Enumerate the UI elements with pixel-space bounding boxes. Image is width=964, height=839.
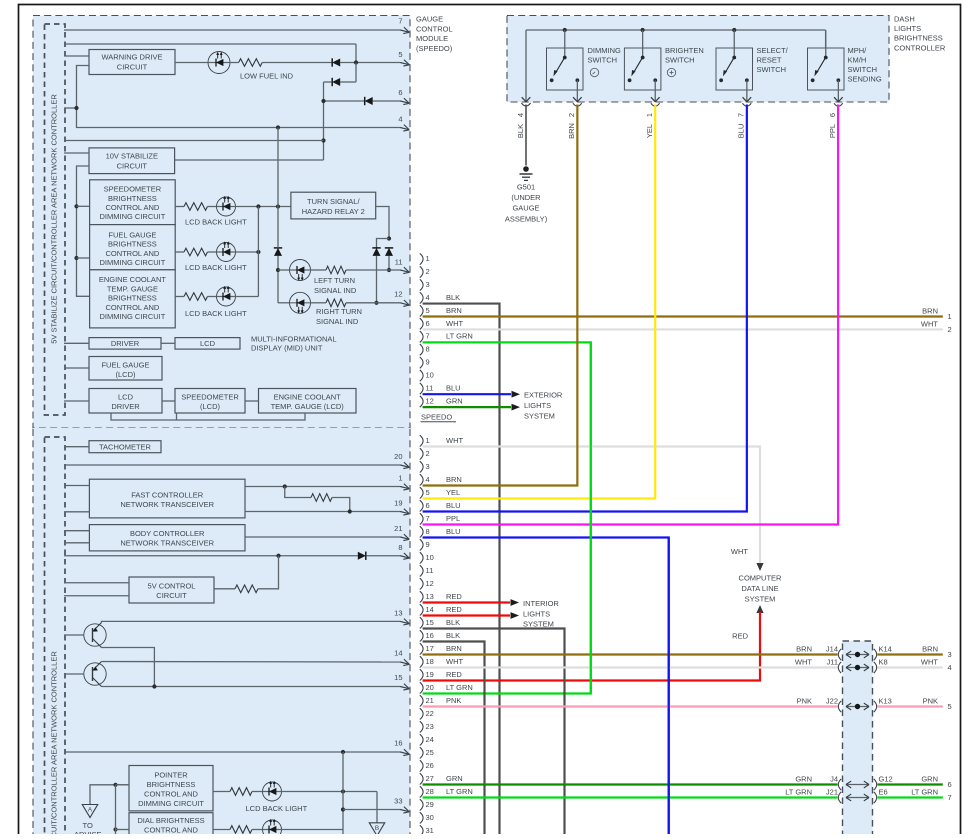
svg-text:BRN: BRN [446, 644, 462, 653]
svg-text:MULTI-INFORMATIONAL: MULTI-INFORMATIONAL [251, 335, 337, 344]
svg-text:5: 5 [398, 50, 402, 59]
svg-text:DIMMING: DIMMING [588, 46, 621, 55]
svg-text:WHT: WHT [446, 319, 463, 328]
svg-text:17: 17 [426, 644, 434, 653]
svg-text:15: 15 [426, 618, 434, 627]
svg-text:1: 1 [426, 254, 430, 263]
svg-text:5: 5 [426, 306, 430, 315]
svg-text:12: 12 [426, 396, 434, 405]
svg-text:DATA LINE: DATA LINE [741, 584, 778, 593]
svg-text:BLU: BLU [737, 124, 746, 139]
svg-text:EXTERIOR: EXTERIOR [524, 391, 563, 400]
svg-text:7: 7 [948, 793, 952, 802]
svg-text:7: 7 [426, 332, 430, 341]
svg-text:NETWORK TRANSCEIVER: NETWORK TRANSCEIVER [120, 539, 214, 548]
svg-text:11: 11 [426, 566, 434, 575]
svg-text:G501: G501 [517, 183, 535, 192]
svg-text:6: 6 [828, 113, 837, 117]
svg-text:BRIGHTNESS: BRIGHTNESS [147, 780, 196, 789]
svg-text:LCD BACK LIGHT: LCD BACK LIGHT [185, 217, 247, 226]
svg-text:19: 19 [426, 670, 434, 679]
svg-text:4: 4 [516, 113, 525, 117]
svg-text:ASSEMBLY): ASSEMBLY) [505, 214, 548, 223]
svg-text:RED: RED [446, 670, 462, 679]
svg-text:14: 14 [394, 648, 402, 657]
svg-text:SIGNAL IND: SIGNAL IND [314, 286, 357, 295]
svg-text:WHT: WHT [795, 657, 812, 666]
svg-text:SWITCH: SWITCH [588, 55, 618, 64]
svg-text:GRN: GRN [795, 774, 812, 783]
svg-text:10: 10 [426, 553, 434, 562]
svg-text:MPH/: MPH/ [848, 46, 868, 55]
svg-text:5: 5 [948, 702, 952, 711]
svg-text:11: 11 [426, 384, 434, 393]
svg-text:15: 15 [394, 673, 402, 682]
svg-text:7: 7 [398, 17, 402, 26]
svg-text:J4: J4 [830, 774, 838, 783]
svg-text:SWITCH: SWITCH [665, 55, 695, 64]
svg-text:TEMP. GAUGE (LCD): TEMP. GAUGE (LCD) [271, 402, 345, 411]
svg-text:14: 14 [426, 605, 434, 614]
svg-text:(LCD): (LCD) [200, 402, 221, 411]
svg-text:LIGHTS: LIGHTS [523, 609, 550, 618]
svg-text:20: 20 [426, 683, 434, 692]
svg-text:SWITCH: SWITCH [757, 65, 787, 74]
svg-text:BRIGHTNESS: BRIGHTNESS [894, 34, 943, 43]
svg-text:WHT: WHT [446, 436, 463, 445]
svg-text:21: 21 [394, 524, 402, 533]
svg-text:5V STABILIZE CIRCUIT/CONTROLLE: 5V STABILIZE CIRCUIT/CONTROLLER AREA NET… [50, 651, 59, 834]
svg-text:FAST CONTROLLER: FAST CONTROLLER [131, 491, 204, 500]
svg-text:BRIGHTNESS: BRIGHTNESS [108, 240, 157, 249]
svg-text:CONTROL AND: CONTROL AND [105, 249, 159, 258]
svg-text:PNK: PNK [446, 696, 461, 705]
svg-text:28: 28 [426, 787, 434, 796]
svg-text:CONTROLLER: CONTROLLER [894, 43, 946, 52]
svg-text:WHT: WHT [921, 657, 938, 666]
svg-text:11: 11 [395, 257, 403, 266]
svg-text:2: 2 [948, 325, 952, 334]
svg-text:2: 2 [426, 267, 430, 276]
svg-text:9: 9 [426, 540, 430, 549]
svg-text:BLK: BLK [446, 618, 460, 627]
svg-text:WHT: WHT [731, 547, 748, 556]
svg-text:6: 6 [398, 88, 402, 97]
svg-text:GRN: GRN [446, 774, 463, 783]
svg-text:CIRCUIT: CIRCUIT [117, 63, 148, 72]
svg-text:21: 21 [426, 696, 434, 705]
svg-text:1: 1 [645, 113, 654, 117]
svg-text:20: 20 [394, 452, 402, 461]
svg-text:DIAL BRIGHTNESS: DIAL BRIGHTNESS [137, 816, 204, 825]
svg-text:BLK: BLK [516, 124, 525, 138]
svg-text:TO: TO [83, 821, 93, 830]
svg-text:MODULE: MODULE [416, 34, 448, 43]
svg-text:SELECT/: SELECT/ [757, 46, 789, 55]
svg-text:WHT: WHT [446, 657, 463, 666]
svg-text:RED: RED [446, 592, 462, 601]
svg-text:5: 5 [426, 488, 430, 497]
svg-text:J11: J11 [826, 657, 838, 666]
svg-text:4: 4 [426, 475, 430, 484]
svg-text:4: 4 [426, 293, 430, 302]
svg-text:YEL: YEL [645, 124, 654, 138]
svg-text:8: 8 [398, 543, 402, 552]
svg-text:GRN: GRN [921, 774, 938, 783]
svg-text:BLU: BLU [446, 501, 461, 510]
svg-text:DRIVER: DRIVER [111, 402, 140, 411]
svg-text:DIMMING CIRCUIT: DIMMING CIRCUIT [99, 312, 165, 321]
svg-text:K8: K8 [879, 657, 888, 666]
svg-text:1: 1 [426, 436, 430, 445]
svg-text:CIRCUIT: CIRCUIT [117, 161, 148, 170]
svg-text:DISPLAY (MID) UNIT: DISPLAY (MID) UNIT [251, 344, 323, 353]
svg-text:4: 4 [948, 663, 952, 672]
svg-text:NETWORK TRANSCEIVER: NETWORK TRANSCEIVER [120, 500, 214, 509]
svg-text:1: 1 [398, 474, 402, 483]
svg-text:30: 30 [426, 813, 434, 822]
svg-text:RED: RED [732, 632, 748, 641]
svg-text:5V CONTROL: 5V CONTROL [148, 581, 196, 590]
svg-text:29: 29 [426, 800, 434, 809]
svg-text:GRN: GRN [446, 396, 463, 405]
svg-text:J21: J21 [826, 787, 838, 796]
svg-text:3: 3 [426, 462, 430, 471]
svg-text:22: 22 [426, 709, 434, 718]
svg-text:TACHOMETER: TACHOMETER [99, 443, 152, 452]
svg-text:24: 24 [426, 735, 434, 744]
svg-text:33: 33 [394, 797, 402, 806]
svg-text:LT GRN: LT GRN [911, 787, 938, 796]
svg-text:CONTROL: CONTROL [416, 24, 453, 33]
svg-text:1: 1 [948, 312, 952, 321]
svg-text:LCD: LCD [118, 393, 134, 402]
svg-text:BLK: BLK [446, 293, 460, 302]
svg-text:WARNING DRIVE: WARNING DRIVE [102, 53, 163, 62]
svg-text:RED: RED [446, 605, 462, 614]
svg-text:PNK: PNK [923, 696, 938, 705]
svg-text:BLU: BLU [446, 527, 461, 536]
svg-text:HAZARD RELAY 2: HAZARD RELAY 2 [302, 207, 365, 216]
svg-text:13: 13 [426, 592, 434, 601]
svg-text:5V STABILIZE CIRCUIT/CONTROLLE: 5V STABILIZE CIRCUIT/CONTROLLER AREA NET… [50, 94, 59, 344]
svg-text:SPEEDOMETER: SPEEDOMETER [181, 393, 239, 402]
svg-text:7: 7 [426, 514, 430, 523]
svg-text:25: 25 [426, 748, 434, 757]
svg-text:10: 10 [426, 371, 434, 380]
svg-text:7: 7 [737, 113, 746, 117]
svg-text:LIGHTS: LIGHTS [524, 401, 551, 410]
svg-text:ENGINE COOLANT: ENGINE COOLANT [274, 393, 342, 402]
svg-text:SPEEDO: SPEEDO [421, 413, 452, 422]
svg-text:E6: E6 [879, 787, 888, 796]
svg-text:DIMMING CIRCUIT: DIMMING CIRCUIT [99, 258, 165, 267]
svg-text:LOW FUEL IND: LOW FUEL IND [240, 72, 294, 81]
svg-text:LCD BACK LIGHT: LCD BACK LIGHT [246, 804, 308, 813]
svg-text:LT GRN: LT GRN [446, 332, 473, 341]
svg-text:3: 3 [426, 280, 430, 289]
svg-text:PPL: PPL [446, 514, 460, 523]
svg-text:K13: K13 [879, 696, 892, 705]
svg-text:13: 13 [394, 609, 402, 618]
svg-text:SENDING: SENDING [848, 75, 882, 84]
svg-text:16: 16 [426, 631, 434, 640]
svg-text:12: 12 [426, 579, 434, 588]
svg-text:2: 2 [426, 449, 430, 458]
svg-text:FUEL GAUGE: FUEL GAUGE [101, 361, 149, 370]
svg-text:BRN: BRN [567, 123, 576, 139]
svg-text:WHT: WHT [921, 319, 938, 328]
svg-text:LIGHTS: LIGHTS [894, 24, 921, 33]
svg-text:SPEEDOMETER: SPEEDOMETER [104, 185, 162, 194]
svg-text:BLU: BLU [446, 384, 461, 393]
svg-text:2: 2 [567, 113, 576, 117]
svg-text:(SPEEDO): (SPEEDO) [416, 44, 453, 53]
svg-text:K14: K14 [879, 644, 892, 653]
svg-text:8: 8 [426, 345, 430, 354]
svg-text:GAUGE: GAUGE [416, 15, 443, 24]
svg-text:RESET: RESET [757, 55, 782, 64]
svg-text:CONTROL AND: CONTROL AND [105, 303, 159, 312]
svg-text:PPL: PPL [828, 124, 837, 138]
svg-text:26: 26 [426, 761, 434, 770]
svg-text:6: 6 [426, 501, 430, 510]
svg-text:INTERIOR: INTERIOR [523, 599, 559, 608]
svg-text:TEMP. GAUGE: TEMP. GAUGE [107, 284, 158, 293]
svg-text:LEFT TURN: LEFT TURN [314, 276, 355, 285]
svg-text:ADVISE: ADVISE [74, 830, 102, 834]
svg-text:J22: J22 [826, 696, 838, 705]
svg-text:BRIGHTNESS: BRIGHTNESS [108, 194, 157, 203]
svg-text:CONTROL AND: CONTROL AND [105, 203, 159, 212]
svg-text:16: 16 [394, 739, 402, 748]
svg-text:DRIVER: DRIVER [111, 339, 140, 348]
svg-text:FUEL GAUGE: FUEL GAUGE [108, 230, 156, 239]
svg-text:DIMMING CIRCUIT: DIMMING CIRCUIT [138, 799, 204, 808]
svg-text:COMPUTER: COMPUTER [739, 574, 783, 583]
svg-text:G12: G12 [879, 774, 893, 783]
svg-text:J14: J14 [826, 644, 838, 653]
svg-text:BRN: BRN [922, 644, 938, 653]
svg-text:18: 18 [426, 657, 434, 666]
svg-text:LT GRN: LT GRN [446, 787, 473, 796]
svg-text:8: 8 [426, 527, 430, 536]
svg-text:(LCD): (LCD) [116, 370, 137, 379]
svg-text:RIGHT TURN: RIGHT TURN [316, 307, 362, 316]
svg-text:9: 9 [426, 358, 430, 367]
svg-text:SIGNAL IND: SIGNAL IND [316, 317, 359, 326]
svg-text:31: 31 [426, 826, 434, 834]
svg-text:POINTER: POINTER [154, 771, 188, 780]
svg-text:BRN: BRN [922, 306, 938, 315]
svg-text:BODY CONTROLLER: BODY CONTROLLER [130, 529, 205, 538]
svg-text:12: 12 [394, 289, 402, 298]
svg-text:BRIGHTNESS: BRIGHTNESS [108, 294, 157, 303]
svg-text:DASH: DASH [894, 15, 915, 24]
svg-text:TURN SIGNAL/: TURN SIGNAL/ [307, 197, 360, 206]
svg-text:19: 19 [394, 499, 402, 508]
svg-text:BRN: BRN [446, 475, 462, 484]
svg-text:ENGINE COOLANT: ENGINE COOLANT [99, 275, 167, 284]
svg-text:(UNDER: (UNDER [511, 193, 541, 202]
svg-text:CIRCUIT: CIRCUIT [156, 591, 187, 600]
svg-text:LCD BACK LIGHT: LCD BACK LIGHT [185, 309, 247, 318]
svg-text:23: 23 [426, 722, 434, 731]
svg-text:SYSTEM: SYSTEM [524, 411, 555, 420]
svg-text:SWITCH: SWITCH [848, 65, 878, 74]
svg-text:DIMMING CIRCUIT: DIMMING CIRCUIT [99, 212, 165, 221]
svg-text:KM/H: KM/H [848, 55, 867, 64]
svg-text:LCD: LCD [200, 339, 216, 348]
svg-text:BRN: BRN [796, 644, 812, 653]
svg-text:6: 6 [948, 780, 952, 789]
svg-text:27: 27 [426, 774, 434, 783]
svg-text:B: B [375, 825, 379, 832]
svg-text:BLK: BLK [446, 631, 460, 640]
svg-text:4: 4 [398, 115, 402, 124]
svg-text:3: 3 [948, 650, 952, 659]
svg-text:YEL: YEL [446, 488, 460, 497]
svg-text:GAUGE: GAUGE [512, 204, 539, 213]
svg-text:LCD BACK LIGHT: LCD BACK LIGHT [185, 263, 247, 272]
svg-text:BRIGHTEN: BRIGHTEN [665, 46, 704, 55]
svg-text:BRN: BRN [446, 306, 462, 315]
svg-text:6: 6 [426, 319, 430, 328]
svg-text:SYSTEM: SYSTEM [745, 594, 776, 603]
svg-text:10V STABILIZE: 10V STABILIZE [106, 151, 158, 160]
svg-text:PNK: PNK [797, 696, 812, 705]
svg-text:CONTROL AND: CONTROL AND [144, 790, 198, 799]
svg-text:LT GRN: LT GRN [785, 787, 812, 796]
svg-text:SYSTEM: SYSTEM [523, 620, 554, 629]
svg-text:CONTROL AND: CONTROL AND [144, 826, 198, 835]
svg-text:LT GRN: LT GRN [446, 683, 473, 692]
